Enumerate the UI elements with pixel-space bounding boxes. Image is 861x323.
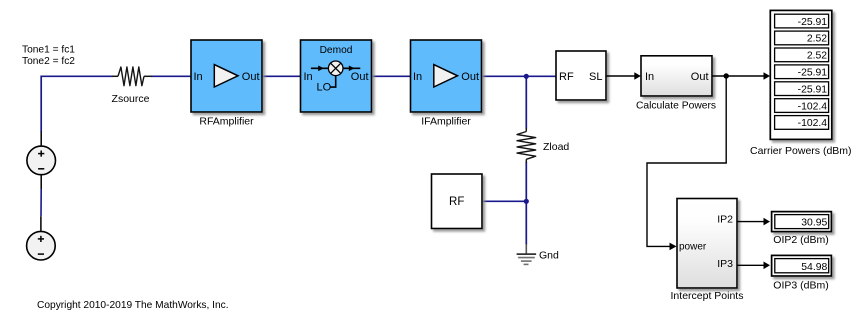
svg-text:Out: Out (351, 71, 369, 83)
svg-text:Carrier Powers (dBm): Carrier Powers (dBm) (750, 145, 852, 157)
svg-text:Zsource: Zsource (112, 93, 150, 105)
mixer block Demod (301, 40, 372, 112)
amplifier block IFAmplifier (411, 40, 482, 128)
wire Zsource to RFAmplifier (152, 75, 192, 77)
svg-text:-102.4: -102.4 (798, 118, 828, 129)
wire RF-SL to Calculate Powers (607, 72, 641, 80)
svg-text:Demod: Demod (320, 45, 353, 56)
svg-text:Calculate Powers: Calculate Powers (636, 100, 716, 111)
svg-text:-25.91: -25.91 (798, 84, 828, 95)
svg-text:In: In (645, 71, 654, 83)
svg-text:IP2: IP2 (717, 213, 733, 225)
wire Zload to ground junction (525, 162, 527, 245)
subsystem Calculate Powers (636, 56, 716, 112)
svg-text:OIP2 (dBm): OIP2 (dBm) (773, 234, 828, 246)
svg-text:LO: LO (317, 82, 332, 94)
wire IP3 to OIP3 display (737, 262, 770, 270)
wire RF block to junction (482, 200, 526, 202)
svg-text:power: power (679, 241, 707, 252)
wire sources between circles (40, 189, 42, 216)
svg-text:In: In (413, 71, 422, 83)
svg-text:30.95: 30.95 (801, 218, 827, 229)
node junction Out branch (724, 73, 729, 78)
svg-text:RFAmplifier: RFAmplifier (199, 116, 254, 128)
display OIP3 (dBm) (772, 255, 832, 291)
svg-text:IP3: IP3 (717, 258, 733, 270)
wire RFAmplifier to Demod (262, 75, 301, 77)
wire IFAmplifier to RF-SL block (482, 75, 557, 77)
svg-text:IFAmplifier: IFAmplifier (421, 116, 471, 128)
annotation Tone1/Tone2 (22, 45, 75, 67)
resistor Zload (517, 128, 569, 163)
svg-text:Tone2 = fc2: Tone2 = fc2 (22, 56, 75, 67)
svg-text:Out: Out (691, 71, 709, 83)
svg-text:OIP3 (dBm): OIP3 (dBm) (773, 279, 828, 291)
svg-text:In: In (194, 71, 203, 83)
svg-text:2.52: 2.52 (807, 51, 827, 62)
wire IP2 to OIP2 display (737, 218, 770, 226)
svg-text:54.98: 54.98 (801, 262, 827, 273)
svg-text:Out: Out (461, 71, 479, 83)
wire branch to Intercept Points power (647, 76, 726, 250)
svg-text:Out: Out (242, 71, 260, 83)
wire Demod to IFAmplifier (372, 75, 411, 77)
svg-text:-102.4: -102.4 (798, 101, 828, 112)
subsystem Intercept Points (671, 199, 744, 303)
svg-text:2.52: 2.52 (807, 34, 827, 45)
display Carrier Powers (dBm) (750, 10, 852, 157)
wire source to Zsource (L shape) (41, 76, 112, 132)
svg-text:SL: SL (589, 71, 602, 83)
amplifier block RFAmplifier (191, 40, 262, 128)
svg-text:Copyright 2010-2019 The MathWo: Copyright 2010-2019 The MathWorks, Inc. (37, 300, 229, 311)
node junction IFAmp/Zload (524, 74, 529, 79)
ground Gnd (517, 244, 559, 264)
svg-text:In: In (304, 71, 313, 83)
svg-text:-25.91: -25.91 (798, 17, 828, 28)
svg-text:-25.91: -25.91 (798, 68, 828, 79)
node junction RF/Gnd (524, 199, 529, 204)
voltage source V2 (27, 216, 56, 260)
port block RF (termination probe) (432, 174, 483, 229)
wire junction down to Zload (525, 76, 527, 128)
svg-text:Intercept Points: Intercept Points (671, 290, 744, 302)
port block RF-SL converter (556, 51, 606, 100)
svg-text:Gnd: Gnd (539, 250, 559, 262)
svg-text:Zload: Zload (543, 141, 569, 153)
svg-text:RF: RF (449, 196, 464, 208)
voltage source V1 (27, 132, 56, 190)
svg-text:RF: RF (559, 71, 574, 83)
wire Calculate Powers to Carrier display (712, 72, 770, 80)
svg-text:Tone1 = fc1: Tone1 = fc1 (22, 45, 75, 56)
display OIP2 (dBm) (772, 212, 832, 246)
resistor Zsource (112, 67, 152, 105)
